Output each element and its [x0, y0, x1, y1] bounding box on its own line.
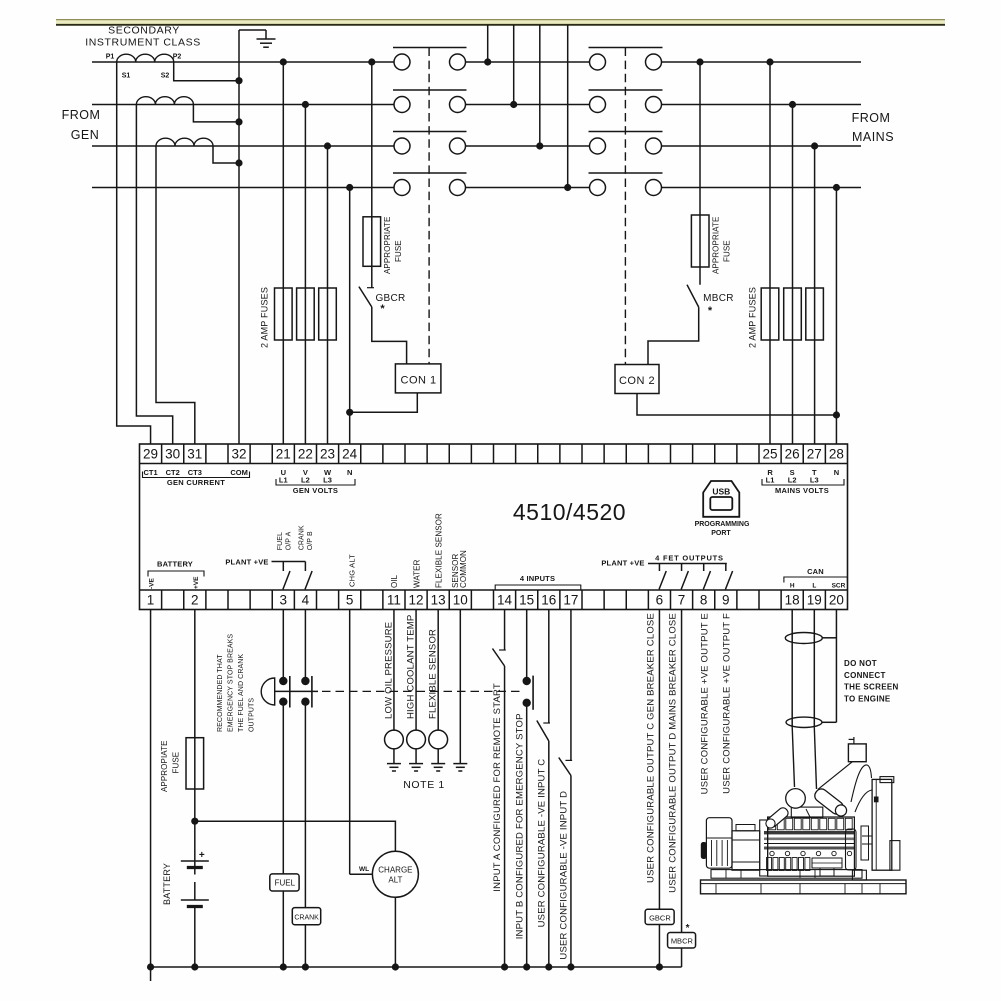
svg-text:4 FET OUTPUTS: 4 FET OUTPUTS	[655, 554, 724, 563]
svg-text:3: 3	[280, 593, 288, 608]
svg-text:USER CONFIGURABLE -VE INPUT D: USER CONFIGURABLE -VE INPUT D	[559, 791, 570, 960]
svg-text:8: 8	[700, 593, 708, 608]
svg-text:P1: P1	[106, 54, 115, 61]
svg-text:30: 30	[165, 447, 180, 462]
svg-text:FUSE: FUSE	[172, 752, 181, 774]
svg-text:L1: L1	[279, 476, 288, 485]
svg-text:L3: L3	[810, 476, 819, 485]
svg-text:16: 16	[541, 593, 556, 608]
svg-text:CT2: CT2	[166, 468, 180, 477]
svg-text:CHG ALT: CHG ALT	[348, 554, 357, 587]
svg-text:O/P A: O/P A	[286, 531, 293, 550]
svg-text:+VE: +VE	[193, 576, 200, 589]
svg-text:CONNECT: CONNECT	[844, 671, 886, 680]
svg-text:13: 13	[431, 593, 446, 608]
svg-text:USER CONFIGURABLE OUTPUT C GEN: USER CONFIGURABLE OUTPUT C GEN BREAKER C…	[645, 613, 656, 883]
svg-text:BATTERY: BATTERY	[157, 560, 193, 569]
svg-text:EMERGENCY STOP BREAKS: EMERGENCY STOP BREAKS	[228, 634, 235, 732]
svg-text:6: 6	[656, 593, 664, 608]
svg-text:FUSE: FUSE	[394, 240, 403, 262]
svg-text:COM: COM	[230, 468, 248, 477]
svg-text:CRANK: CRANK	[299, 525, 306, 550]
svg-text:17: 17	[563, 593, 578, 608]
svg-text:CT1: CT1	[143, 468, 157, 477]
svg-text:OUTPUTS: OUTPUTS	[249, 698, 256, 732]
svg-text:L: L	[812, 583, 816, 590]
svg-text:MAINS: MAINS	[852, 130, 894, 144]
svg-text:L1: L1	[766, 476, 775, 485]
svg-text:MAINS VOLTS: MAINS VOLTS	[775, 486, 829, 495]
svg-text:WATER: WATER	[412, 559, 421, 588]
svg-text:*: *	[380, 303, 385, 315]
svg-text:22: 22	[298, 447, 313, 462]
svg-text:N: N	[834, 468, 839, 477]
svg-text:23: 23	[320, 447, 335, 462]
svg-text:CHARGE: CHARGE	[378, 866, 412, 875]
svg-text:N: N	[347, 468, 352, 477]
svg-text:2: 2	[191, 593, 199, 608]
svg-text:USER CONFIGURABLE OUTPUT D MAI: USER CONFIGURABLE OUTPUT D MAINS BREAKER…	[667, 613, 678, 893]
svg-text:FUSE: FUSE	[723, 240, 732, 262]
svg-text:24: 24	[342, 447, 358, 462]
svg-text:7: 7	[678, 593, 686, 608]
svg-text:GEN: GEN	[71, 128, 100, 142]
svg-text:+: +	[199, 850, 205, 861]
svg-text:O/P B: O/P B	[307, 531, 314, 550]
svg-text:LOW OIL PRESSURE: LOW OIL PRESSURE	[384, 622, 395, 719]
svg-text:P2: P2	[173, 54, 182, 61]
svg-text:HIGH COOLANT TEMP: HIGH COOLANT TEMP	[406, 615, 417, 719]
svg-text:GBCR: GBCR	[649, 913, 671, 922]
svg-text:GEN VOLTS: GEN VOLTS	[293, 486, 338, 495]
svg-text:INPUT B CONFIGURED FOR EMERGEN: INPUT B CONFIGURED FOR EMERGENCY STOP	[514, 713, 525, 939]
svg-text:APPROPRIATE: APPROPRIATE	[712, 217, 721, 274]
svg-text:12: 12	[409, 593, 424, 608]
svg-text:APPROPRIATE: APPROPRIATE	[383, 217, 392, 274]
svg-text:NOTE 1: NOTE 1	[403, 779, 445, 791]
svg-text:-VE: -VE	[149, 578, 156, 590]
svg-text:FUEL: FUEL	[275, 879, 296, 888]
svg-text:18: 18	[785, 593, 800, 608]
svg-text:4510/4520: 4510/4520	[513, 499, 626, 525]
svg-text:27: 27	[807, 447, 822, 462]
svg-text:26: 26	[785, 447, 800, 462]
svg-text:CT3: CT3	[188, 468, 202, 477]
svg-text:21: 21	[276, 447, 291, 462]
svg-text:L3: L3	[323, 476, 332, 485]
svg-text:H: H	[790, 583, 795, 590]
svg-text:USB: USB	[712, 487, 730, 497]
svg-text:5: 5	[346, 593, 354, 608]
svg-text:DO NOT: DO NOT	[844, 659, 877, 668]
svg-text:32: 32	[232, 447, 247, 462]
svg-text:10: 10	[453, 593, 468, 608]
svg-text:APPROPIATE: APPROPIATE	[160, 740, 169, 792]
svg-text:INPUT A CONFIGURED FOR REMOTE: INPUT A CONFIGURED FOR REMOTE START	[492, 683, 503, 892]
svg-text:TO ENGINE: TO ENGINE	[844, 694, 891, 703]
svg-text:WL: WL	[359, 866, 369, 873]
svg-text:USER CONFIGURABLE +VE OUTPUT F: USER CONFIGURABLE +VE OUTPUT F	[722, 613, 733, 794]
svg-text:L2: L2	[301, 476, 310, 485]
svg-text:FUEL: FUEL	[277, 532, 284, 550]
svg-text:28: 28	[829, 447, 844, 462]
svg-text:2 AMP FUSES: 2 AMP FUSES	[260, 287, 270, 348]
svg-text:MBCR: MBCR	[703, 293, 734, 304]
svg-text:OIL: OIL	[390, 574, 399, 588]
svg-text:FLEXIBLE SENSOR: FLEXIBLE SENSOR	[428, 629, 439, 719]
svg-text:4: 4	[302, 593, 310, 608]
svg-text:CRANK: CRANK	[294, 914, 319, 921]
svg-text:FROM: FROM	[852, 111, 891, 125]
svg-text:BATTERY: BATTERY	[162, 863, 172, 905]
svg-text:ALT: ALT	[388, 876, 402, 885]
svg-text:S2: S2	[161, 73, 170, 80]
svg-text:14: 14	[497, 593, 513, 608]
svg-text:11: 11	[387, 593, 401, 608]
svg-text:L2: L2	[788, 476, 797, 485]
svg-text:2 AMP FUSES: 2 AMP FUSES	[748, 287, 758, 348]
svg-text:CAN: CAN	[807, 567, 824, 576]
svg-text:SECONDARY: SECONDARY	[108, 25, 180, 37]
svg-text:15: 15	[519, 593, 534, 608]
svg-text:INSTRUMENT CLASS: INSTRUMENT CLASS	[85, 37, 201, 49]
svg-text:*: *	[686, 923, 690, 934]
svg-text:COMMON: COMMON	[459, 550, 468, 588]
svg-text:4 INPUTS: 4 INPUTS	[520, 574, 555, 583]
svg-text:THE SCREEN: THE SCREEN	[844, 683, 899, 692]
svg-text:29: 29	[143, 447, 158, 462]
svg-text:MBCR: MBCR	[671, 937, 694, 946]
svg-text:FROM: FROM	[62, 108, 101, 122]
svg-text:S1: S1	[122, 73, 131, 80]
svg-text:RECOMMENDED THAT: RECOMMENDED THAT	[217, 654, 224, 732]
svg-text:25: 25	[763, 447, 778, 462]
svg-text:SCR: SCR	[832, 583, 846, 590]
svg-text:9: 9	[722, 593, 730, 608]
svg-text:PLANT +VE: PLANT +VE	[601, 559, 644, 568]
svg-text:*: *	[708, 305, 713, 317]
svg-text:31: 31	[187, 447, 202, 462]
svg-text:1: 1	[147, 593, 155, 608]
svg-text:USER CONFIGURABLE -VE INPUT C: USER CONFIGURABLE -VE INPUT C	[536, 759, 547, 928]
svg-text:20: 20	[829, 593, 844, 608]
svg-text:USER CONFIGURABLE +VE OUTPUT E: USER CONFIGURABLE +VE OUTPUT E	[700, 613, 711, 794]
svg-text:FLEXIBLE SENSOR: FLEXIBLE SENSOR	[434, 513, 443, 588]
svg-text:PROGRAMMING: PROGRAMMING	[695, 521, 750, 528]
svg-text:CON 2: CON 2	[619, 375, 655, 387]
svg-text:19: 19	[807, 593, 822, 608]
svg-text:PORT: PORT	[711, 530, 731, 537]
svg-text:GEN CURRENT: GEN CURRENT	[167, 478, 225, 487]
svg-text:CON 1: CON 1	[401, 375, 437, 387]
svg-text:THE FUEL AND CRANK: THE FUEL AND CRANK	[238, 654, 245, 732]
svg-text:PLANT +VE: PLANT +VE	[225, 558, 268, 567]
